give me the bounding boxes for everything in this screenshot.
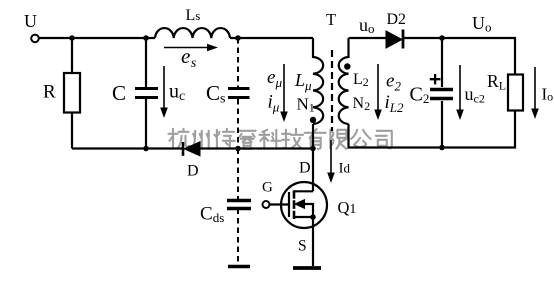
inductor Ls	[155, 28, 230, 38]
node C top	[143, 35, 149, 41]
MOSFET Q1 body circle	[281, 182, 327, 228]
annotation arrows	[160, 44, 539, 183]
char si	[376, 131, 392, 149]
svg-text:D2: D2	[387, 11, 407, 28]
char you	[305, 129, 326, 149]
char rui	[239, 131, 256, 149]
arrow e2	[374, 64, 382, 120]
wire R branch	[71, 38, 73, 149]
arrow Id	[327, 140, 335, 183]
diode D	[183, 142, 200, 156]
wire C2 branch	[441, 38, 443, 148]
char gong	[351, 130, 371, 147]
char ke	[259, 130, 280, 149]
wire secondary top to D2	[349, 37, 387, 39]
node drain rail	[310, 146, 316, 152]
node Cds rail	[235, 146, 241, 152]
char xian	[330, 130, 346, 149]
input terminal U (open circle)	[31, 35, 39, 43]
arrow uc	[160, 66, 168, 118]
arrow e mu	[280, 64, 288, 122]
node R top	[69, 35, 75, 41]
char zhou	[192, 131, 209, 149]
svg-text:S: S	[298, 238, 307, 255]
svg-text:R: R	[43, 82, 56, 103]
load resistor RL	[508, 75, 523, 111]
wire bottom left rail	[72, 147, 313, 149]
gate bar	[288, 192, 290, 217]
drain stub	[294, 190, 313, 192]
main circuit strokes	[31, 28, 523, 268]
transformer secondary winding N2	[339, 38, 349, 124]
wire output bottom rail	[349, 111, 516, 148]
char hang	[169, 129, 190, 148]
wire top rail mid	[230, 37, 313, 39]
source wire	[312, 217, 314, 266]
transformer primary winding N1	[313, 38, 323, 124]
node C2 bottom	[439, 145, 445, 151]
svg-text:D: D	[299, 160, 311, 177]
gate lead wire	[270, 203, 289, 205]
svg-text:Id: Id	[339, 161, 351, 177]
char ji	[282, 129, 303, 148]
capacitor Cds	[227, 201, 251, 209]
polarity dot N2	[344, 63, 350, 69]
node C bottom	[143, 146, 149, 152]
polarity dot N1	[310, 117, 316, 123]
arrow es	[164, 44, 218, 52]
wire top rail left	[39, 37, 155, 39]
svg-text:Ls: Ls	[186, 7, 201, 24]
node Cs top	[235, 35, 241, 41]
svg-text:T: T	[326, 10, 336, 29]
char jiang	[214, 129, 235, 149]
ground bar left	[228, 265, 250, 269]
svg-text:G: G	[262, 180, 273, 196]
capacitor C	[135, 89, 158, 98]
wire C branch	[145, 38, 147, 149]
source junction dot	[310, 214, 316, 220]
diode D2	[386, 30, 403, 49]
wire dashed snubber branch	[237, 38, 239, 264]
svg-text:U: U	[24, 11, 37, 31]
capacitor C2	[430, 90, 453, 99]
node C2 top	[439, 35, 445, 41]
watermark text (gray, hand-drawn strokes)	[169, 129, 392, 149]
channel segments	[293, 190, 296, 219]
arrow Io	[531, 67, 539, 119]
wire primary to drain	[312, 124, 314, 191]
capacitor Cs	[228, 89, 250, 98]
resistor R	[64, 73, 80, 113]
transformer core	[331, 50, 333, 131]
svg-text:C: C	[112, 81, 126, 105]
ground bar source	[293, 266, 321, 270]
plus sign C2	[430, 74, 441, 84]
wire D2 to output	[403, 38, 515, 75]
arrow uc2	[456, 65, 464, 120]
source stub	[294, 216, 313, 218]
gate terminal circle	[263, 201, 270, 208]
body stub with arrow	[295, 200, 313, 217]
svg-text:D: D	[187, 163, 199, 180]
